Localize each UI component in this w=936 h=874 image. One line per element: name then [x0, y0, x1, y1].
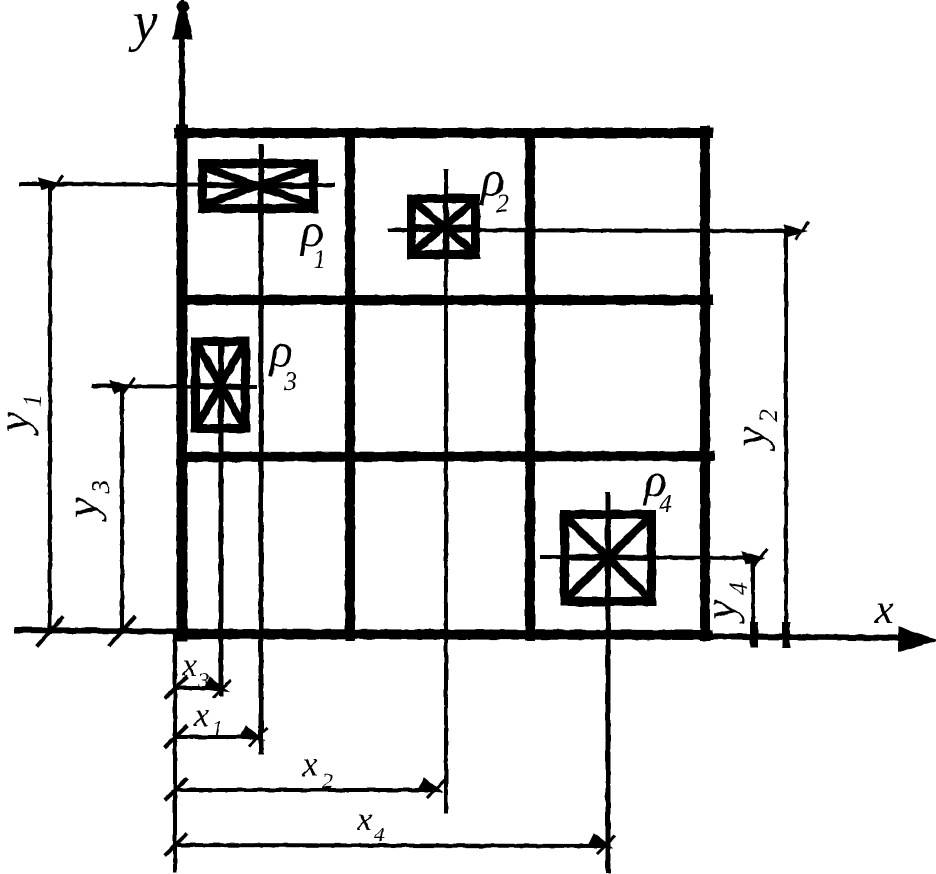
svg-text:2: 2 — [496, 189, 509, 218]
load P3 cross diagonals — [197, 344, 244, 426]
dimension y3 bottom tick — [110, 618, 134, 645]
load P2 cross diagonals — [413, 201, 474, 252]
load P1 cross diagonals — [203, 167, 313, 205]
svg-text:3: 3 — [86, 480, 115, 494]
dimension x4 arrow — [588, 834, 612, 848]
load P4 box — [565, 515, 652, 602]
svg-text:2: 2 — [322, 768, 333, 793]
grid vertical line 3 — [525, 133, 535, 636]
svg-text:4: 4 — [659, 489, 672, 518]
svg-text:x: x — [193, 697, 209, 734]
dimension x4 line — [175, 845, 606, 846]
dimension y4 arrow — [742, 552, 764, 564]
grid right edge — [700, 131, 710, 636]
load P2 crosshair horizontal — [390, 230, 798, 231]
load P2 inner crosshair — [413, 200, 474, 253]
load P3 crosshair horizontal — [94, 386, 255, 387]
dimension x1 arrow — [240, 726, 264, 740]
svg-text:y: y — [128, 0, 158, 53]
load P3 extension line vertical — [219, 352, 224, 694]
svg-text:4: 4 — [724, 582, 753, 595]
dimension x3 arrow — [204, 677, 228, 692]
label P3 — [268, 324, 297, 396]
svg-text:x: x — [874, 587, 894, 633]
dimension y3 arrow — [110, 381, 132, 393]
svg-text:y: y — [56, 497, 107, 522]
svg-text:4: 4 — [374, 822, 385, 847]
grid left edge — [177, 130, 188, 636]
load P1 extension line vertical — [259, 147, 264, 752]
dimension x2 arrow — [418, 778, 442, 792]
dimension x1 line — [175, 735, 258, 739]
svg-text:3: 3 — [283, 367, 297, 396]
dimension y1 arrow — [38, 178, 60, 190]
dimension x3 left tick — [166, 678, 186, 697]
grid row line 2 — [182, 295, 708, 305]
label P4 — [642, 454, 672, 518]
label y4 — [694, 582, 753, 624]
dimension y2 line — [784, 231, 788, 635]
svg-text:x: x — [181, 647, 197, 684]
load P4 extension line vertical — [606, 495, 611, 871]
load P2 box — [412, 199, 476, 255]
tick y2 dim at x-axis — [782, 626, 790, 644]
tick y4 dim at x-axis — [750, 626, 758, 644]
dimension x2 line — [175, 788, 436, 792]
svg-text:y: y — [724, 426, 775, 451]
load P3 box — [196, 342, 246, 429]
bottom reference line below origin — [173, 634, 177, 870]
dimension y1 line — [48, 183, 52, 632]
svg-text:1: 1 — [313, 245, 326, 274]
label y1 — [0, 394, 47, 436]
load P4 cross diagonals — [566, 517, 650, 599]
dimension y1 bottom tick — [38, 618, 62, 645]
svg-text:x: x — [356, 801, 372, 838]
load P4 crosshair horizontal — [542, 557, 752, 558]
dimension x4 left tick — [166, 835, 186, 854]
svg-text:1: 1 — [212, 716, 223, 741]
grid bottom edge on x-axis — [178, 634, 708, 635]
label y2 — [724, 409, 783, 451]
label x2 — [301, 744, 333, 793]
svg-text:y: y — [694, 599, 745, 624]
label P2 — [479, 150, 509, 218]
label x4 — [356, 801, 385, 847]
load P3 inner crosshair — [197, 343, 244, 427]
grid vertical line 2 — [345, 133, 355, 636]
load P1 inner crosshair — [204, 163, 312, 209]
label P1 — [299, 204, 326, 274]
svg-text:x: x — [301, 744, 318, 784]
dimension y2 arrow — [784, 225, 806, 237]
load P1 box — [203, 164, 314, 209]
x-axis — [17, 628, 936, 651]
dimension x2 left tick — [166, 780, 186, 799]
svg-text:3: 3 — [197, 668, 209, 693]
svg-text:y: y — [0, 411, 39, 436]
svg-text:1: 1 — [18, 394, 47, 407]
dimension x3 line — [175, 686, 222, 690]
y-axis — [174, 0, 191, 636]
load P4 inner crosshair — [566, 516, 650, 600]
label x1 — [193, 697, 223, 741]
dimension y3 line — [120, 386, 124, 632]
load P1 crosshair horizontal — [21, 184, 333, 185]
svg-text:2: 2 — [754, 409, 783, 422]
label y3 — [56, 480, 115, 522]
load P2 extension line vertical — [444, 171, 448, 812]
grid row line 3 — [182, 456, 710, 457]
label x3 — [181, 647, 209, 693]
grid outline top edge — [179, 128, 708, 138]
dimension y4 line — [751, 558, 755, 635]
dimension x1 left tick — [166, 727, 186, 746]
